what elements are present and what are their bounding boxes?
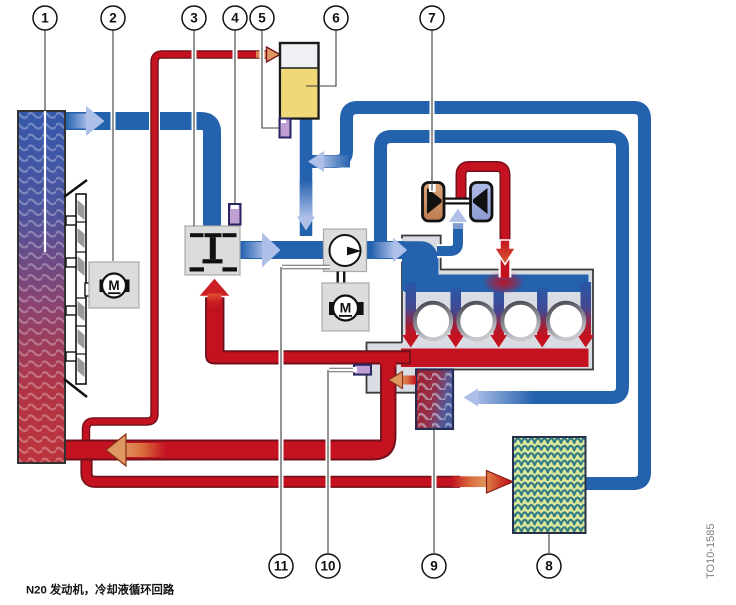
callout line 9 xyxy=(432,429,437,553)
callout circle 3 xyxy=(182,6,206,30)
arrow up into thermostat xyxy=(198,278,231,312)
electric coolant pump 11 xyxy=(324,229,367,272)
cylinder flow arrow bar 2 xyxy=(447,288,464,348)
callout line 8 xyxy=(548,533,550,553)
svg-text:4: 4 xyxy=(231,11,239,26)
svg-text:6: 6 xyxy=(332,11,340,26)
electric fan assembly xyxy=(64,180,96,397)
arrow out of exchanger 9 into downpipe xyxy=(389,372,417,389)
cylinder 2 xyxy=(458,303,494,339)
callout line 7 xyxy=(429,30,436,192)
turbo hot return loop xyxy=(461,167,511,279)
callout circle 10 xyxy=(316,554,340,578)
callout circle 11 xyxy=(269,554,293,578)
pump suction/discharge line thermostat to engine xyxy=(240,241,404,259)
callout line 6 xyxy=(306,30,336,86)
inner blue loop pipe (heater circuit) xyxy=(381,137,623,398)
callout circle 9 xyxy=(422,554,446,578)
cylinder flow arrow bar 4 xyxy=(534,288,551,348)
engine block body xyxy=(402,236,593,370)
heat exchanger 8 (transmission oil cooler) xyxy=(513,437,586,533)
coolant gallery blue band in cylinder head xyxy=(404,275,589,293)
svg-text:7: 7 xyxy=(428,11,436,26)
hot pipe to expansion tank (thin red) xyxy=(86,55,460,482)
white casing where red pipe crosses blue pipe xyxy=(149,110,160,133)
svg-text:1: 1 xyxy=(41,11,49,26)
callout line 2 xyxy=(111,30,116,261)
svg-text:5: 5 xyxy=(258,11,266,26)
svg-text:M: M xyxy=(340,300,352,316)
callout line 5 xyxy=(262,30,279,128)
svg-text:9: 9 xyxy=(430,559,438,574)
main hot return downpipe and band to radiator xyxy=(62,352,396,460)
callout line 10 xyxy=(328,370,353,553)
turbo coolant feed arrow up into turbocharger xyxy=(448,208,469,230)
cylinder flow arrow bar 1 xyxy=(402,282,419,348)
arrow down into pump suction xyxy=(297,180,315,231)
svg-text:10: 10 xyxy=(320,559,335,574)
expansion tank outlet pipe down to pump line xyxy=(300,117,313,236)
arrow into heat exchanger 9 xyxy=(464,389,535,407)
cylinder flow arrow bar 3 xyxy=(490,288,507,348)
turbocharger U1 xyxy=(423,183,493,222)
radiator 1 xyxy=(18,111,65,463)
cylinder 1 xyxy=(415,303,451,339)
thermostat box 3 xyxy=(185,226,240,275)
svg-text:TO10-1585: TO10-1585 xyxy=(705,524,717,579)
callout circle 4 xyxy=(223,6,247,30)
callout circle 8 xyxy=(537,554,561,578)
pump inlet elbow down to head gallery xyxy=(402,241,439,291)
turbo feed branch stub with white casing xyxy=(437,224,458,251)
svg-text:N20 发动机，冷却液循环回路: N20 发动机，冷却液循环回路 xyxy=(26,583,175,597)
red glow where turbo return enters head xyxy=(483,271,525,294)
callout circle 7 xyxy=(420,6,444,30)
arrow hot return into radiator xyxy=(106,434,166,466)
outer blue loop pipe (expansion-tank return from exchanger 8) xyxy=(306,108,645,484)
arrow into expansion tank xyxy=(256,47,280,62)
engine outlet red pipe and thermostat feed riser xyxy=(206,295,410,367)
arrow pump discharge into engine xyxy=(371,238,407,262)
callout line 3 xyxy=(192,30,197,226)
coolant temperature sensor 10 xyxy=(351,365,371,375)
callout line 1 xyxy=(44,30,46,252)
svg-text:11: 11 xyxy=(274,559,289,574)
engine hot coolant red band xyxy=(401,349,589,368)
callout circle 2 xyxy=(101,6,125,30)
pump motor box xyxy=(322,283,369,331)
expansion tank 6 xyxy=(280,43,319,119)
callout circle 1 xyxy=(33,6,57,30)
arrow into heat exchanger 8 xyxy=(452,471,513,493)
svg-text:8: 8 xyxy=(545,559,553,574)
engine block lower-left appendage xyxy=(367,343,417,393)
callout line 11 xyxy=(281,267,330,553)
level sensor 5 xyxy=(280,119,291,138)
callout line 4 xyxy=(233,30,238,204)
callout circle 6 xyxy=(324,6,348,30)
pump motor shaft xyxy=(337,272,346,284)
svg-text:2: 2 xyxy=(109,11,117,26)
callout circle 5 xyxy=(250,6,274,30)
arrow radiator outlet xyxy=(66,106,105,136)
arrow thermostat outlet xyxy=(241,233,281,268)
cylinder 3 xyxy=(502,303,538,339)
arrow from outer loop into tank pipe xyxy=(308,151,350,172)
cylinder flow arrow bar 5 xyxy=(577,282,594,348)
cylinder 4 xyxy=(548,303,584,339)
temperature sensor 4 xyxy=(229,204,241,225)
arrow down from turbo into head xyxy=(495,240,516,265)
fan motor box 2 xyxy=(89,262,139,308)
svg-text:M: M xyxy=(108,278,119,293)
heat exchanger 9 (heater core) xyxy=(416,369,453,429)
radiator outlet pipe to thermostat xyxy=(63,121,212,230)
svg-text:3: 3 xyxy=(190,11,198,26)
